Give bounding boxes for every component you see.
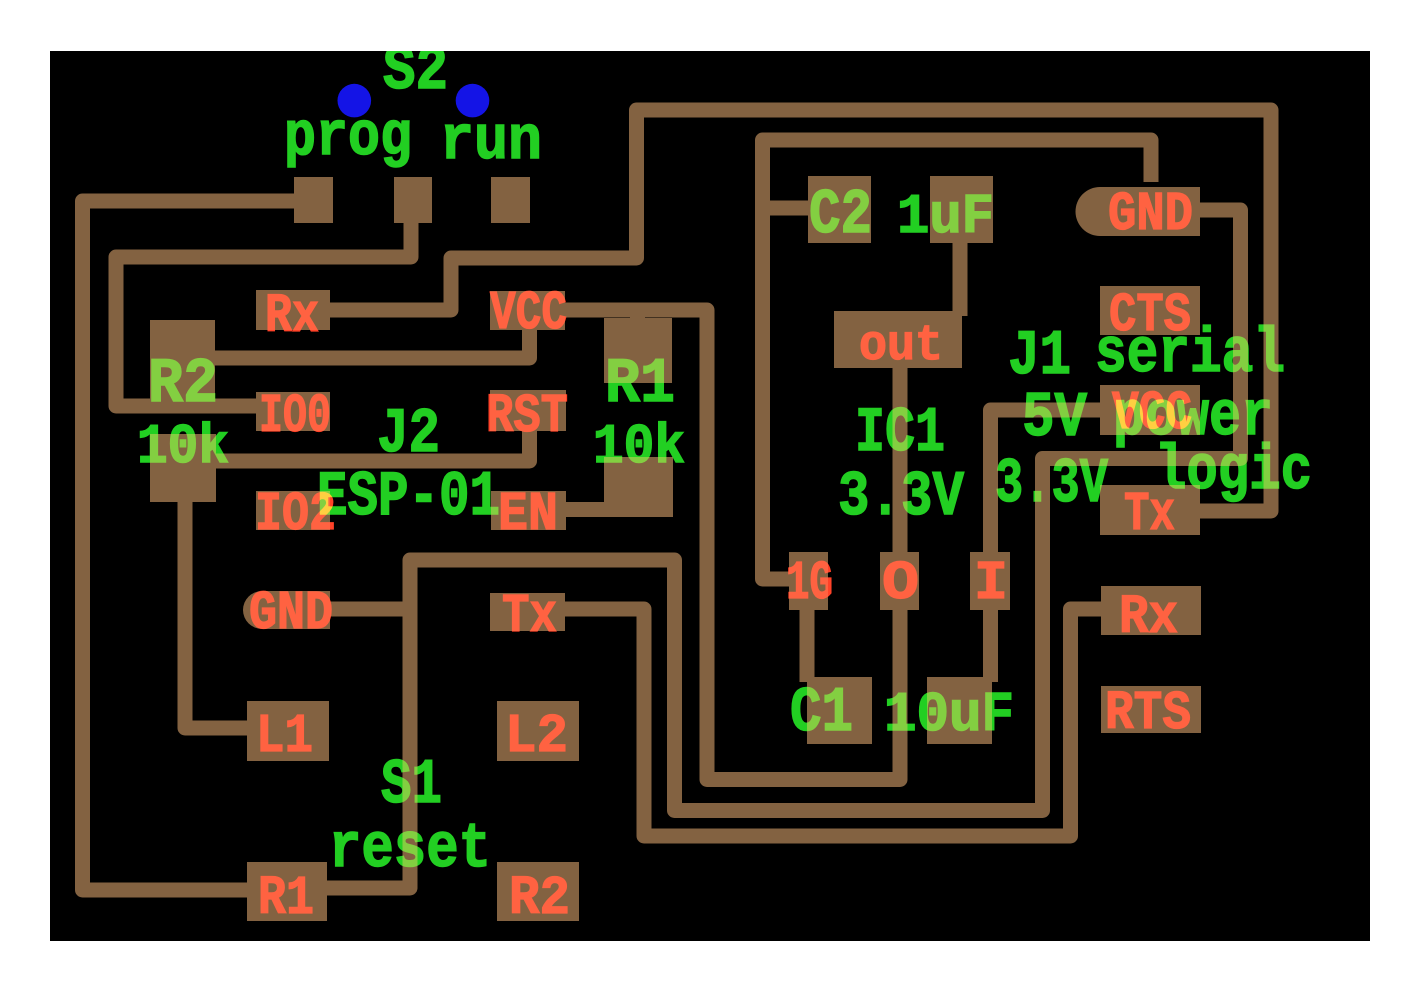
svg-text:RTS: RTS [1105, 682, 1191, 745]
svg-text:R1: R1 [258, 867, 314, 930]
svg-text:IC1: IC1 [855, 398, 945, 469]
svg-text:IO0: IO0 [259, 385, 331, 448]
svg-text:L1: L1 [256, 705, 313, 768]
svg-text:S2: S2 [383, 36, 448, 107]
svg-text:CTS: CTS [1109, 284, 1191, 347]
svg-text:3.3V: 3.3V [838, 462, 964, 533]
svg-text:C1: C1 [790, 678, 853, 749]
svg-text:10k: 10k [137, 415, 229, 479]
svg-text:Tx: Tx [1124, 483, 1175, 546]
svg-text:J1: J1 [1008, 321, 1071, 392]
svg-text:L2: L2 [505, 705, 568, 768]
svg-text:R2: R2 [148, 349, 218, 420]
svg-text:I: I [974, 552, 1008, 615]
svg-text:R1: R1 [605, 349, 675, 420]
svg-text:RST: RST [486, 385, 568, 448]
svg-text:1G: 1G [786, 552, 833, 615]
svg-text:GND: GND [249, 582, 333, 645]
svg-text:GND: GND [1108, 183, 1193, 246]
svg-text:O: O [882, 552, 919, 615]
svg-text:EN: EN [498, 483, 558, 546]
svg-text:1uF: 1uF [897, 185, 994, 249]
svg-text:ESP-01: ESP-01 [317, 462, 500, 533]
svg-text:3.3V: 3.3V [995, 449, 1108, 520]
svg-text:J2: J2 [377, 399, 440, 470]
svg-text:VCC: VCC [490, 282, 567, 345]
svg-text:R2: R2 [509, 867, 570, 930]
svg-text:5V: 5V [1022, 383, 1087, 454]
svg-text:Rx: Rx [1119, 586, 1178, 649]
svg-text:Tx: Tx [502, 585, 557, 648]
svg-text:reset: reset [329, 814, 491, 885]
svg-text:10k: 10k [593, 415, 685, 479]
svg-text:out: out [859, 318, 943, 375]
svg-text:C2: C2 [809, 180, 872, 251]
svg-text:VCC: VCC [1112, 382, 1192, 445]
svg-text:run: run [440, 106, 542, 177]
svg-text:logic: logic [1155, 436, 1312, 507]
svg-text:prog: prog [284, 102, 412, 173]
svg-text:S1: S1 [381, 750, 442, 821]
svg-text:Rx: Rx [265, 285, 319, 348]
svg-text:IO2: IO2 [255, 483, 336, 546]
svg-text:10uF: 10uF [884, 683, 1014, 747]
